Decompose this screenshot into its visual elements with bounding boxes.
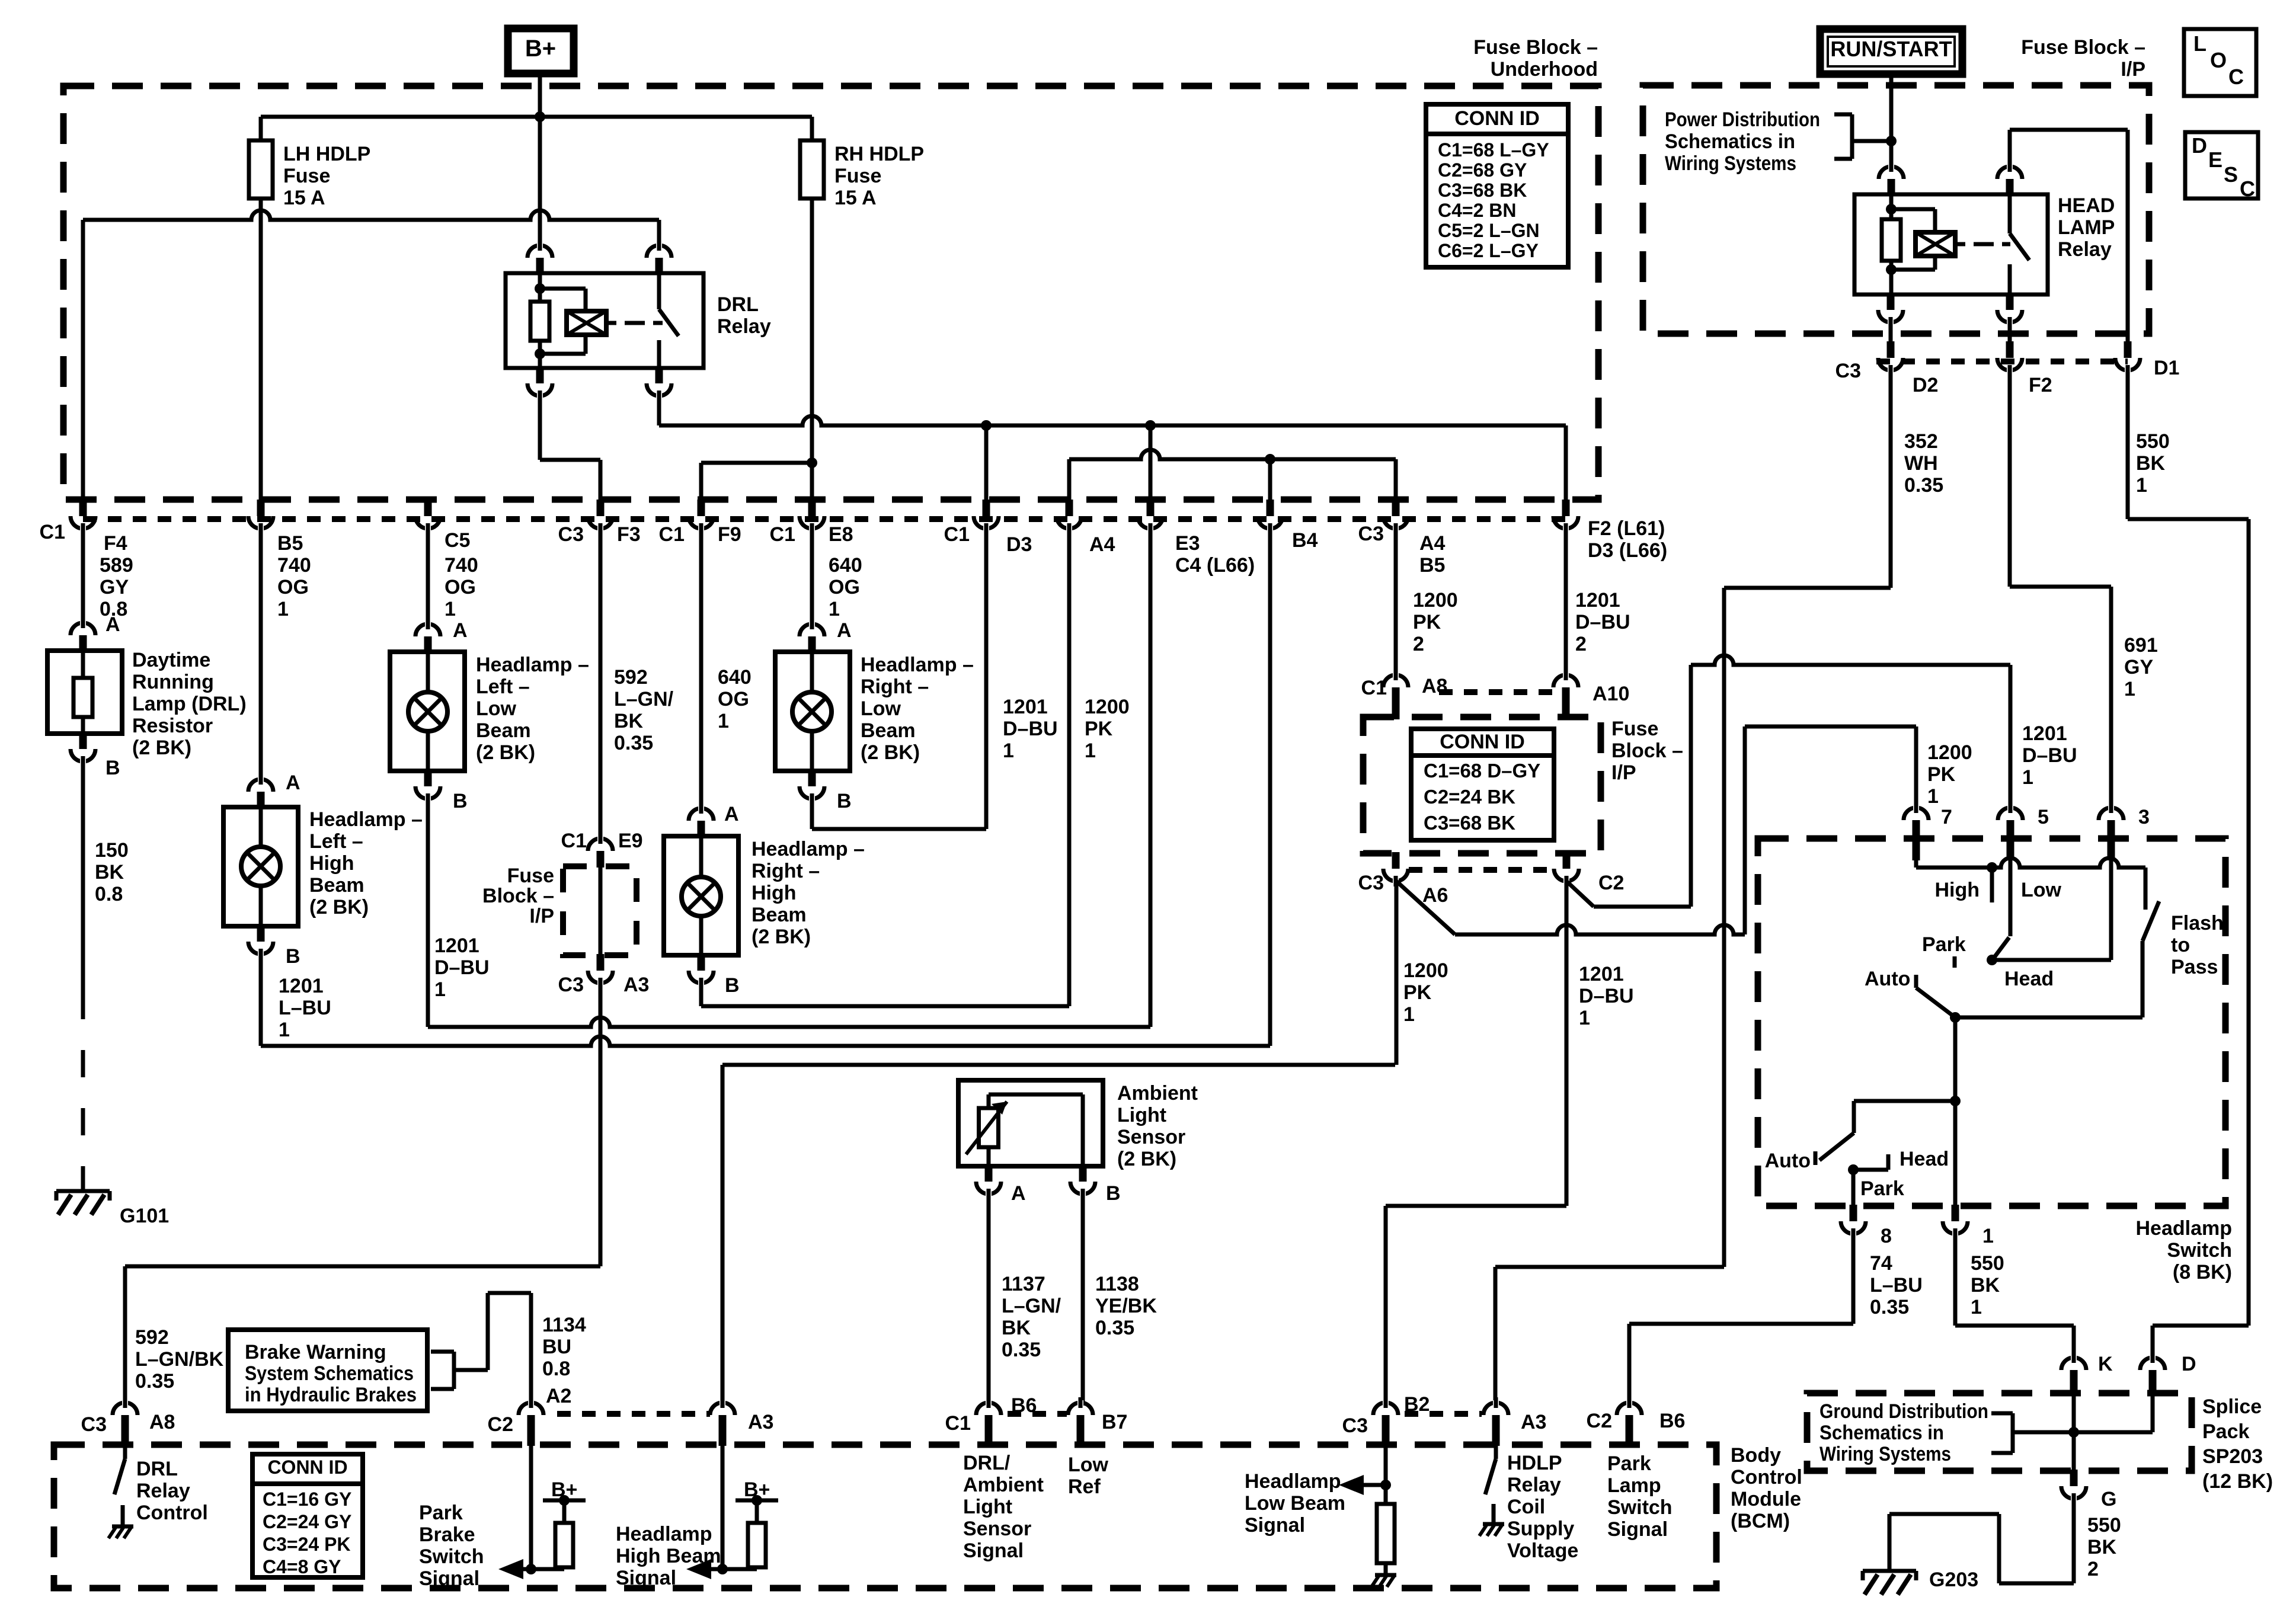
svg-text:I/P: I/P xyxy=(1611,761,1636,784)
svg-text:C2: C2 xyxy=(1598,872,1624,894)
svg-text:Lamp (DRL): Lamp (DRL) xyxy=(132,693,247,715)
wire bus775 drop to B4 connector xyxy=(1268,459,1272,502)
svg-text:A3: A3 xyxy=(748,1411,773,1433)
svg-text:Signal: Signal xyxy=(963,1539,1024,1562)
DRL relay control switch xyxy=(123,1445,127,1459)
headlamp relay solenoid symbol xyxy=(1916,232,1955,256)
svg-text:CONN ID: CONN ID xyxy=(1440,731,1525,753)
svg-text:Signal: Signal xyxy=(616,1567,676,1589)
svg-text:640: 640 xyxy=(829,554,862,577)
svg-text:Low: Low xyxy=(1068,1454,1109,1476)
svg-text:Pass: Pass xyxy=(2171,956,2218,978)
svg-text:CONN ID: CONN ID xyxy=(267,1457,347,1478)
svg-text:7: 7 xyxy=(1941,806,1952,828)
box Brake Warning System Schematics in Hydraulic Brakes xyxy=(228,1330,427,1411)
svg-text:0.8: 0.8 xyxy=(95,883,123,905)
connector pin 1 xyxy=(1952,1205,1959,1221)
connector underhood row x=1804 xyxy=(1066,500,1073,516)
svg-text:L–BU: L–BU xyxy=(279,997,331,1019)
svg-text:Schematics in: Schematics in xyxy=(1665,130,1795,153)
svg-text:A4: A4 xyxy=(1419,532,1446,555)
svg-text:Beam: Beam xyxy=(309,874,364,897)
svg-text:C1: C1 xyxy=(561,830,587,852)
svg-text:HDLP: HDLP xyxy=(1507,1452,1562,1474)
svg-text:A: A xyxy=(453,619,468,642)
wire bus371 to DRL relay switch xyxy=(657,220,661,248)
connector D splice xyxy=(2149,1370,2157,1387)
svg-text:Voltage: Voltage xyxy=(1507,1539,1578,1562)
svg-text:Headlamp: Headlamp xyxy=(1245,1470,1341,1493)
wire 150 BK dashed reference xyxy=(81,992,85,1190)
svg-text:OG: OG xyxy=(718,688,749,710)
table CONN ID underhood xyxy=(1426,104,1568,267)
connector BCM A3 x=2524 xyxy=(1492,1415,1500,1432)
junction bus718 at D3 xyxy=(981,420,992,431)
svg-text:2: 2 xyxy=(1575,633,1587,655)
svg-text:691: 691 xyxy=(2124,634,2158,657)
svg-text:3: 3 xyxy=(2138,806,2150,828)
svg-text:WH: WH xyxy=(1904,452,1938,475)
svg-text:Schematics in: Schematics in xyxy=(1819,1422,1944,1444)
svg-text:L–GN/: L–GN/ xyxy=(1002,1295,1061,1317)
svg-text:(2 BK): (2 BK) xyxy=(1117,1148,1176,1170)
svg-text:Brake Warning: Brake Warning xyxy=(245,1341,386,1363)
wire bus718 drop to E3 connector xyxy=(1149,425,1153,502)
wire 550 BK from D1 xyxy=(2126,370,2130,519)
svg-text:Ground Distribution: Ground Distribution xyxy=(1819,1400,1988,1423)
svg-text:C6=2 L–GY: C6=2 L–GY xyxy=(1438,240,1539,261)
wire bus from B+ to fuses xyxy=(261,115,812,119)
svg-text:B5: B5 xyxy=(1419,554,1445,577)
component Daytime Running Lamp (DRL) Resistor box xyxy=(47,651,122,734)
svg-text:CONN ID: CONN ID xyxy=(1454,107,1540,130)
table CONN ID BCM xyxy=(252,1454,363,1577)
headlamp relay coil wire xyxy=(1889,194,1894,221)
svg-text:1: 1 xyxy=(434,978,446,1001)
svg-text:(12 BK): (12 BK) xyxy=(2202,1470,2273,1493)
svg-text:A3: A3 xyxy=(1521,1411,1546,1433)
wire C2 down 1201 D-BU xyxy=(1565,881,1569,1206)
wire 1137 sensor to B6 xyxy=(987,1192,991,1406)
svg-text:GY: GY xyxy=(100,576,129,598)
connector C1 A8 xyxy=(1392,687,1400,704)
svg-text:B6: B6 xyxy=(1659,1410,1685,1432)
svg-text:D2: D2 xyxy=(1913,374,1938,396)
BCM connector dashed row 3 xyxy=(1405,1411,1482,1417)
svg-text:A: A xyxy=(1011,1182,1026,1205)
connector DRL relay switch pin bottom xyxy=(655,367,663,383)
svg-text:550: 550 xyxy=(2136,430,2170,453)
svg-text:F4: F4 xyxy=(104,532,127,555)
wire 1201 L-BU to B4 bus xyxy=(259,952,263,1046)
junction head contact xyxy=(1987,955,1997,965)
svg-text:BK: BK xyxy=(95,861,124,884)
svg-text:550: 550 xyxy=(1971,1252,2004,1275)
svg-text:Ambient: Ambient xyxy=(963,1474,1044,1496)
junction high bus xyxy=(1987,862,1997,873)
svg-text:Supply: Supply xyxy=(1507,1518,1574,1540)
wire 592 to fuse block IP xyxy=(599,526,603,836)
svg-text:C3: C3 xyxy=(1342,1414,1368,1437)
svg-text:1200: 1200 xyxy=(1413,589,1458,612)
wire 740 OG to left high beam xyxy=(259,526,263,782)
connector underhood row x=722 xyxy=(424,500,432,516)
connector B headlamp left high xyxy=(257,925,265,942)
lamp Headlamp Right High Beam xyxy=(664,836,738,955)
svg-text:0.35: 0.35 xyxy=(1870,1296,1909,1318)
svg-text:Head: Head xyxy=(2004,968,2054,990)
connector A sensor xyxy=(985,1165,993,1182)
wire D1 feed from relay switch xyxy=(2008,130,2012,169)
wire A6 down 1200 PK xyxy=(1395,881,1399,1065)
bracket power distribution reference xyxy=(1834,113,1852,117)
svg-text:1: 1 xyxy=(2124,678,2135,700)
svg-text:1201: 1201 xyxy=(1579,963,1624,985)
svg-text:Control: Control xyxy=(136,1502,208,1524)
svg-text:1: 1 xyxy=(1579,1007,1590,1029)
svg-text:D–BU: D–BU xyxy=(1003,718,1058,740)
Splice Pack / Ground Distribution dashed box xyxy=(1807,1393,2192,1471)
svg-text:1201: 1201 xyxy=(1575,589,1620,612)
svg-text:B2: B2 xyxy=(1404,1393,1430,1416)
svg-text:Headlamp: Headlamp xyxy=(616,1523,712,1545)
junction bus718 at E3 xyxy=(1145,420,1156,431)
svg-text:Right –: Right – xyxy=(752,860,820,882)
svg-text:BU: BU xyxy=(542,1336,571,1358)
svg-text:B4: B4 xyxy=(1292,529,1318,552)
svg-text:C3: C3 xyxy=(558,974,584,996)
resistor headlamp relay suppression xyxy=(1882,219,1901,261)
svg-text:Left –: Left – xyxy=(309,830,363,853)
svg-text:S: S xyxy=(2224,162,2238,187)
wire 691 GY from F2 xyxy=(2008,370,2012,587)
svg-text:C3=68 BK: C3=68 BK xyxy=(1424,812,1515,834)
connector DRL relay coil pin bottom xyxy=(536,367,544,383)
svg-text:A4: A4 xyxy=(1089,533,1115,556)
connector underhood row x=2355 xyxy=(1392,500,1400,516)
Fuse Block IP small dashed box xyxy=(563,866,637,955)
svg-text:D–BU: D–BU xyxy=(434,956,490,979)
boxes LOC xyxy=(2184,29,2256,96)
svg-text:E8: E8 xyxy=(829,523,853,546)
svg-text:352: 352 xyxy=(1904,430,1938,453)
connector underhood row x=1941 xyxy=(1147,500,1155,516)
connector A headlamp left low xyxy=(424,636,432,653)
svg-text:Beam: Beam xyxy=(476,719,531,742)
svg-text:OG: OG xyxy=(829,576,860,598)
svg-text:B5: B5 xyxy=(277,532,303,555)
svg-text:O: O xyxy=(2210,48,2227,72)
svg-text:Right –: Right – xyxy=(861,676,929,698)
junction selector pivot xyxy=(1950,1012,1961,1023)
ground G101 xyxy=(56,1189,110,1193)
svg-text:Signal: Signal xyxy=(1607,1518,1668,1541)
junction splice SP203 xyxy=(2068,1427,2079,1438)
resistor photo element xyxy=(979,1108,999,1147)
svg-text:Low: Low xyxy=(861,697,901,720)
connector BCM B2 x=2338 xyxy=(1382,1415,1390,1432)
svg-text:A: A xyxy=(105,613,120,636)
wire B+ to DRL relay coil xyxy=(538,117,542,248)
relay DRL Relay box xyxy=(506,273,703,368)
svg-text:HEAD: HEAD xyxy=(2058,194,2115,217)
splice internal wires xyxy=(2072,1394,2076,1471)
connector pin 3 xyxy=(2108,820,2115,837)
svg-text:Headlamp –: Headlamp – xyxy=(476,654,589,676)
wire 1138 sensor to B7 xyxy=(1081,1192,1085,1406)
svg-text:Low: Low xyxy=(2021,879,2062,901)
svg-text:Park: Park xyxy=(1860,1177,1904,1200)
connector BCM B6 x=1668 xyxy=(985,1415,993,1432)
svg-text:740: 740 xyxy=(445,554,478,577)
svg-text:Wiring Systems: Wiring Systems xyxy=(1819,1443,1951,1465)
C3 connector row dashed xyxy=(1876,359,2128,364)
svg-text:A3: A3 xyxy=(623,974,649,996)
wire bus 371 LH fuse output xyxy=(83,210,659,220)
svg-text:C1=68 L–GY: C1=68 L–GY xyxy=(1438,139,1549,161)
svg-text:Head: Head xyxy=(1900,1148,1949,1170)
svg-text:1138: 1138 xyxy=(1095,1273,1139,1295)
svg-text:(2 BK): (2 BK) xyxy=(132,737,191,759)
svg-text:Power Distribution: Power Distribution xyxy=(1665,108,1820,131)
connector underhood row x=1664 xyxy=(983,500,990,516)
svg-text:Light: Light xyxy=(1117,1104,1166,1126)
DRL relay coil loop xyxy=(540,287,586,291)
svg-text:1: 1 xyxy=(1927,785,1939,808)
svg-text:C4=8 GY: C4=8 GY xyxy=(263,1556,341,1577)
wire 640 OG to right low beam xyxy=(810,526,814,627)
svg-text:0.35: 0.35 xyxy=(614,732,653,754)
svg-text:A6: A6 xyxy=(1422,884,1448,907)
junction DRL relay coil top xyxy=(535,283,545,294)
connector underhood row x=440 xyxy=(257,500,265,516)
svg-text:15 A: 15 A xyxy=(283,187,325,209)
svg-text:L–GN/BK: L–GN/BK xyxy=(135,1348,224,1371)
svg-text:LAMP: LAMP xyxy=(2058,216,2115,239)
svg-text:C4 (L66): C4 (L66) xyxy=(1175,554,1255,577)
wire G to G203 xyxy=(2072,1497,2076,1583)
wire E3 column xyxy=(1149,526,1153,1027)
svg-text:B: B xyxy=(286,945,300,968)
junction RH fuse output xyxy=(807,457,817,468)
BCM connector dashed row 1 xyxy=(557,1411,710,1417)
component Ambient Light Sensor box xyxy=(958,1080,1103,1166)
svg-text:Brake: Brake xyxy=(419,1523,475,1546)
svg-text:C1: C1 xyxy=(944,523,970,546)
svg-text:F2 (L61): F2 (L61) xyxy=(1588,517,1665,540)
connector B headlamp right high xyxy=(698,954,705,971)
bracket brake warning xyxy=(431,1350,454,1354)
wire 640 OG to right high beam xyxy=(699,526,703,811)
connector B headlamp right low xyxy=(808,770,816,786)
svg-text:YE/BK: YE/BK xyxy=(1095,1295,1157,1317)
svg-text:Park: Park xyxy=(1922,933,1966,956)
svg-text:C5: C5 xyxy=(445,529,470,552)
svg-text:High: High xyxy=(752,882,797,904)
svg-text:0.35: 0.35 xyxy=(1904,474,1943,497)
wire DRL relay switch output bus 718 xyxy=(657,394,661,425)
svg-text:0.8: 0.8 xyxy=(542,1358,570,1380)
svg-text:B: B xyxy=(105,757,120,779)
svg-text:B+: B+ xyxy=(551,1478,577,1501)
svg-text:RUN/START: RUN/START xyxy=(1830,37,1952,61)
svg-text:BK: BK xyxy=(1971,1274,2000,1297)
boxes DESC xyxy=(2185,132,2258,199)
wire B4 column xyxy=(1268,526,1272,1046)
svg-text:to: to xyxy=(2171,934,2190,956)
lower selector blade xyxy=(1819,1133,1854,1160)
junction relay coil bottom xyxy=(1886,264,1897,275)
connector BCM A8 x=211 xyxy=(121,1415,129,1432)
svg-text:BK: BK xyxy=(614,710,644,732)
wire pin3 down xyxy=(2109,858,2113,960)
ground low beam signal xyxy=(1375,1573,1396,1577)
svg-text:Switch: Switch xyxy=(2167,1239,2232,1262)
svg-text:592: 592 xyxy=(135,1326,169,1349)
wire selector to pin1 xyxy=(1953,1017,1958,1207)
fuse LH HDLP 15A xyxy=(259,117,263,142)
svg-text:B: B xyxy=(725,974,740,997)
junction RUN/START tap xyxy=(1886,136,1897,146)
svg-text:A: A xyxy=(286,772,300,794)
sensor internal loop xyxy=(989,1093,1083,1097)
svg-text:(2 BK): (2 BK) xyxy=(476,741,535,764)
svg-text:B+: B+ xyxy=(744,1478,770,1501)
svg-text:B7: B7 xyxy=(1102,1411,1127,1433)
svg-text:Fuse: Fuse xyxy=(283,165,330,187)
park-head link lower xyxy=(1853,1168,1888,1172)
high contact tick xyxy=(1990,872,1994,902)
wire bus 1797 to BCM A3 xyxy=(722,1063,1395,1067)
svg-text:OG: OG xyxy=(277,576,309,598)
svg-text:Low Beam: Low Beam xyxy=(1245,1492,1345,1515)
svg-text:Ambient: Ambient xyxy=(1117,1082,1198,1105)
svg-text:Relay: Relay xyxy=(136,1480,190,1502)
svg-text:OG: OG xyxy=(445,576,476,598)
svg-text:1: 1 xyxy=(718,710,729,732)
wire bus 1122 to pin5 xyxy=(1691,655,2010,665)
svg-text:Switch: Switch xyxy=(419,1545,484,1568)
svg-text:Fuse: Fuse xyxy=(1611,718,1658,740)
svg-text:Splice: Splice xyxy=(2202,1395,2262,1418)
wire F2/D3 down xyxy=(1564,527,1568,678)
wire head to pin3 xyxy=(1992,958,2111,962)
wire D3 column xyxy=(984,526,989,829)
svg-text:Beam: Beam xyxy=(752,904,807,926)
fuse RH HDLP 15A xyxy=(810,117,814,142)
svg-text:Sensor: Sensor xyxy=(1117,1126,1185,1148)
connector B sensor xyxy=(1079,1165,1087,1182)
wire DRL relay coil low side xyxy=(538,394,542,460)
svg-text:L–BU: L–BU xyxy=(1870,1274,1923,1297)
wire left low beam return xyxy=(426,797,430,1027)
svg-text:C1: C1 xyxy=(659,523,685,546)
connector C3 D2 xyxy=(1887,341,1895,358)
svg-text:Relay: Relay xyxy=(2058,238,2112,261)
connector underhood row x=1370 xyxy=(808,500,816,516)
svg-text:D: D xyxy=(2192,133,2207,158)
svg-text:Block –: Block – xyxy=(482,885,554,907)
svg-text:1201: 1201 xyxy=(1003,696,1048,718)
svg-text:RH HDLP: RH HDLP xyxy=(834,143,924,165)
connector DRL relay coil pin top xyxy=(536,258,544,274)
ground HDLP relay coil xyxy=(1483,1522,1504,1526)
connector C2 IP xyxy=(1563,852,1571,869)
svg-text:C2=68 GY: C2=68 GY xyxy=(1438,159,1527,181)
auto contact tick upper xyxy=(1914,975,1918,988)
svg-text:C3: C3 xyxy=(1835,360,1861,382)
svg-text:0.35: 0.35 xyxy=(135,1370,174,1393)
svg-text:B: B xyxy=(1106,1182,1121,1205)
svg-text:C2=24 GY: C2=24 GY xyxy=(263,1511,351,1532)
headlamp relay switch contact lower xyxy=(2008,264,2012,295)
wire 740 OG to left low beam xyxy=(426,526,430,626)
junction DRL relay coil bottom xyxy=(535,348,545,359)
connector underhood row x=1013 xyxy=(597,500,605,516)
headlamp relay coil loop xyxy=(1891,207,1935,212)
svg-text:G203: G203 xyxy=(1929,1569,1978,1591)
svg-text:740: 740 xyxy=(277,554,311,577)
svg-text:Headlamp: Headlamp xyxy=(2136,1217,2233,1240)
svg-text:Park: Park xyxy=(419,1502,463,1524)
svg-text:Headlamp –: Headlamp – xyxy=(861,654,974,676)
svg-text:(BCM): (BCM) xyxy=(1731,1510,1790,1532)
connector BCM B6 x=2749 xyxy=(1626,1415,1633,1432)
connector headlamp relay coil top xyxy=(1888,179,1895,196)
wire B+ to fuse bus xyxy=(538,73,542,117)
connector B headlamp left low xyxy=(424,770,432,786)
svg-text:1: 1 xyxy=(1003,740,1014,762)
connector A headlamp left high xyxy=(257,792,265,808)
svg-text:Wiring Systems: Wiring Systems xyxy=(1665,152,1796,175)
svg-text:E: E xyxy=(2208,148,2223,172)
connector underhood row x=2642 xyxy=(1562,500,1570,516)
junction selector branch xyxy=(1950,1096,1961,1106)
svg-text:SP203: SP203 xyxy=(2202,1445,2263,1468)
svg-text:E3: E3 xyxy=(1175,532,1200,555)
svg-text:Relay: Relay xyxy=(717,315,771,338)
wire 592 bus to DRL relay control xyxy=(125,1265,600,1269)
svg-text:1137: 1137 xyxy=(1002,1273,1045,1295)
svg-text:BK: BK xyxy=(1002,1317,1031,1339)
svg-text:Ref: Ref xyxy=(1068,1475,1101,1498)
svg-text:5: 5 xyxy=(2038,806,2049,828)
svg-text:1: 1 xyxy=(279,1019,290,1041)
svg-text:A8: A8 xyxy=(149,1411,175,1433)
svg-text:C3=68 BK: C3=68 BK xyxy=(1438,180,1527,201)
svg-text:(2 BK): (2 BK) xyxy=(309,896,369,918)
svg-text:Block –: Block – xyxy=(1611,740,1683,762)
svg-text:0.35: 0.35 xyxy=(1002,1339,1041,1361)
svg-text:Coil: Coil xyxy=(1507,1496,1545,1518)
svg-text:1134: 1134 xyxy=(542,1314,586,1336)
svg-text:Control: Control xyxy=(1731,1466,1802,1489)
svg-text:Module: Module xyxy=(1731,1488,1801,1510)
svg-text:C1: C1 xyxy=(40,521,65,543)
svg-text:A: A xyxy=(837,619,852,642)
svg-text:L–GN/: L–GN/ xyxy=(614,688,674,710)
wire 589 GY to DRL resistor xyxy=(81,526,85,626)
svg-text:1: 1 xyxy=(445,598,456,620)
wire relay pins to C3 row xyxy=(1889,321,1893,344)
connector A headlamp right high xyxy=(698,821,705,837)
relay HEAD LAMP Relay box xyxy=(1854,194,2048,295)
svg-text:Resistor: Resistor xyxy=(132,715,213,737)
wire RH fuse branch bus 781 xyxy=(699,463,703,502)
flash to pass blade xyxy=(2142,901,2159,941)
svg-text:GY: GY xyxy=(2124,656,2153,678)
svg-text:Body: Body xyxy=(1731,1444,1781,1467)
